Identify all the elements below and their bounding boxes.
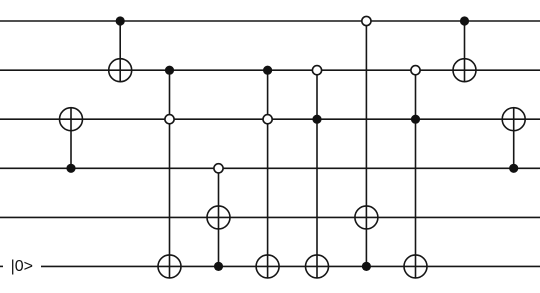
CNOT target X10 on q2 bbox=[502, 108, 525, 131]
control dot on q3 bbox=[509, 164, 518, 173]
anti-control open circle on q2 bbox=[165, 115, 174, 124]
anti-control open circle on q3 bbox=[214, 164, 223, 173]
wire q0 bbox=[0, 20, 540, 22]
wire connector c5 bbox=[267, 70, 269, 278]
control dot on q2 bbox=[312, 115, 321, 124]
anti-control open circle on q1 bbox=[312, 66, 321, 75]
wire connector c4 bbox=[218, 168, 220, 266]
gate column 3: control q1, anti-control q2, target q5 bbox=[158, 66, 181, 278]
wire connector c3 bbox=[169, 70, 171, 278]
wire connector c8 bbox=[415, 70, 417, 278]
wire q1 bbox=[0, 69, 540, 71]
control dot on q5 bbox=[214, 262, 223, 271]
CNOT target X7 on q4 bbox=[355, 206, 378, 229]
gate column 7: anti-control q0, target q4, control q5 bbox=[355, 16, 378, 271]
CNOT target X3 on q5 bbox=[158, 255, 181, 278]
CNOT target X5 on q5 bbox=[256, 255, 279, 278]
gate column 10: CNOT control q3 target q2 bbox=[502, 108, 525, 173]
wire connector c10 bbox=[513, 108, 515, 169]
wire connector c1 bbox=[70, 108, 72, 169]
CNOT target X8 on q5 bbox=[404, 255, 427, 278]
wire q2 bbox=[0, 118, 540, 120]
CNOT target X9 on q1 bbox=[453, 59, 476, 82]
gate column 4: anti-control q3, target q4, control q5 bbox=[207, 164, 230, 271]
control dot on q1 bbox=[263, 66, 272, 75]
wire q4 bbox=[0, 216, 540, 218]
wire connector c7 bbox=[365, 21, 367, 266]
control dot on q5 bbox=[362, 262, 371, 271]
wire q5 main segment bbox=[41, 265, 540, 267]
anti-control open circle on q0 bbox=[362, 16, 371, 25]
wire q5 stub left edge bbox=[0, 265, 3, 267]
CNOT target X2 on q1 bbox=[109, 59, 132, 82]
wire connector c2 bbox=[119, 21, 121, 82]
control dot on q0 bbox=[460, 16, 469, 25]
wire connector c9 bbox=[464, 21, 466, 82]
svg-text:|0>: |0> bbox=[11, 258, 33, 275]
CNOT target X6 on q5 bbox=[306, 255, 329, 278]
control dot on q0 bbox=[116, 16, 125, 25]
CNOT target X1 on q2 bbox=[60, 108, 83, 131]
gate column 5: control q1, anti-control q2, target q5 bbox=[256, 66, 279, 278]
gate column 1: CNOT control q3 target q2 bbox=[60, 108, 83, 173]
control dot on q1 bbox=[165, 66, 174, 75]
wire connector c6 bbox=[316, 70, 318, 278]
CNOT target X4 on q4 bbox=[207, 206, 230, 229]
wire q3 bbox=[0, 167, 540, 169]
anti-control open circle on q1 bbox=[411, 66, 420, 75]
control dot on q2 bbox=[411, 115, 420, 124]
control dot on q3 bbox=[66, 164, 75, 173]
gate column 6: anti-control q1, control q2, target q5 bbox=[306, 66, 329, 278]
gate column 9: CNOT control q0 target q1 bbox=[453, 16, 476, 81]
gate column 8: anti-control q1, control q2, target q5 bbox=[404, 66, 427, 278]
anti-control open circle on q2 bbox=[263, 115, 272, 124]
gate column 2: CNOT control q0 target q1 bbox=[109, 16, 132, 81]
